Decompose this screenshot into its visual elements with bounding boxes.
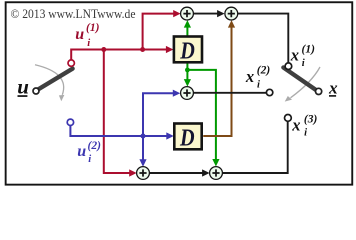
wire black adder A1 to adder A2	[194, 13, 218, 15]
label x_i^(3)	[291, 113, 317, 138]
arrowhead into D2	[166, 132, 174, 139]
svg-text:u: u	[17, 74, 29, 98]
wire red branch up to adder A1	[143, 14, 175, 50]
svg-text:(1): (1)	[86, 22, 100, 34]
contact circle x_i^(3)	[285, 115, 292, 122]
svg-text:x: x	[291, 116, 300, 135]
wire brown from D2 output up to adder A2	[203, 27, 231, 136]
wire green down to adder A3	[186, 70, 188, 80]
contact circle u_i^(2)	[67, 119, 73, 125]
wire u_i^(1) red: contact up and right to D1	[71, 50, 167, 61]
wire black adder A3 to x_i^(2) contact	[193, 92, 266, 94]
arrowhead into adder A1 bottom	[184, 20, 191, 28]
arrowhead into adder A4	[129, 169, 137, 176]
wire blue branch down to adder A4	[142, 136, 144, 160]
junction dot green	[185, 68, 190, 73]
svg-text:© 2013 www.LNTwww.de: © 2013 www.LNTwww.de	[11, 7, 136, 21]
svg-text:D: D	[179, 124, 195, 151]
arrowhead into D1	[166, 46, 174, 53]
arrowhead into adder A2 bottom	[228, 20, 235, 28]
label x (output)	[328, 79, 338, 98]
input switch rotation arc	[35, 65, 64, 95]
arrowhead into adder A4 top	[139, 159, 146, 167]
label u_i^(1)	[75, 22, 99, 49]
label u_i^(2)	[77, 140, 101, 165]
svg-text:i: i	[257, 80, 260, 91]
arrowhead into adder A3	[173, 90, 181, 97]
label x_i^(2)	[245, 65, 270, 91]
wire red branch down to adder A4	[104, 50, 130, 174]
svg-text:u: u	[75, 26, 84, 43]
adder A5	[210, 167, 223, 180]
svg-text:D: D	[179, 38, 195, 65]
output switch rotation arc	[291, 67, 321, 98]
junction dot red 2	[140, 47, 145, 52]
wire green branch right and down to adder A5	[187, 70, 216, 160]
adder A4	[137, 167, 150, 180]
arrowhead into adder A5	[202, 169, 210, 176]
arrowhead into adder A5 top	[212, 159, 219, 167]
arrowhead of output arc	[285, 96, 292, 102]
contact circle x_i^(1)	[285, 63, 292, 70]
adder A1	[181, 7, 194, 20]
delay element D1	[174, 37, 202, 63]
svg-text:u: u	[77, 143, 86, 160]
label x_i^(1)	[290, 43, 315, 69]
arrowhead into adder A2	[217, 10, 225, 17]
input switch lever	[38, 69, 72, 90]
contact circle x_i^(2)	[266, 89, 272, 95]
arrowhead into adder A3 top	[184, 79, 191, 87]
label u (input)	[17, 74, 29, 98]
adder A2	[225, 7, 238, 20]
svg-text:x: x	[245, 67, 254, 86]
input switch pole circle	[33, 88, 39, 94]
wire green D1 output vertical (passes behind D1 box) up to adder A1	[186, 27, 188, 70]
svg-text:x: x	[328, 79, 338, 98]
wire blue branch up to adder A3	[143, 93, 174, 136]
junction dot blue	[141, 134, 146, 139]
contact circle u_i^(1)	[68, 60, 74, 66]
svg-text:i: i	[87, 38, 90, 49]
wire black adder A2 to x_i^(1) contact	[238, 14, 288, 63]
output switch lever	[283, 68, 316, 90]
wire black adder A4 to adder A5	[150, 172, 204, 174]
arrowhead into adder A1	[173, 10, 181, 17]
svg-text:(3): (3)	[304, 113, 318, 125]
svg-text:i: i	[304, 127, 307, 138]
wire u_i^(2) blue: contact down and right to D2	[70, 126, 167, 136]
svg-text:i: i	[302, 58, 305, 69]
svg-text:(1): (1)	[302, 43, 316, 55]
svg-text:x: x	[290, 46, 299, 65]
svg-text:i: i	[88, 154, 91, 165]
delay element D2	[174, 124, 201, 150]
junction dot red 1	[101, 47, 106, 52]
border frame	[6, 2, 353, 184]
svg-text:(2): (2)	[257, 65, 271, 77]
arrowhead of input arc	[59, 95, 65, 101]
output switch pole circle	[316, 88, 322, 94]
svg-text:(2): (2)	[88, 140, 102, 152]
adder A3	[181, 87, 194, 100]
wire black adder A5 to x_i^(3) contact	[222, 121, 287, 173]
